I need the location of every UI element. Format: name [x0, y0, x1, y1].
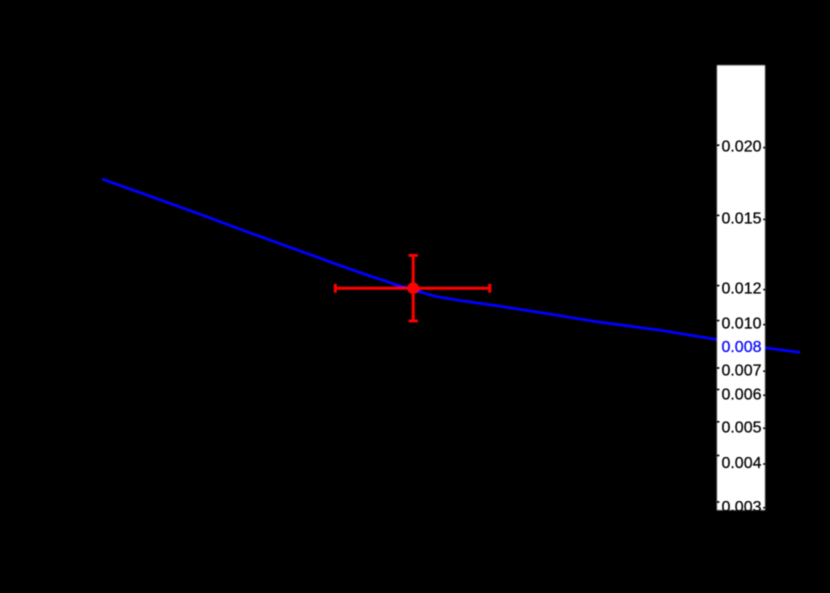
svg-text:0.015: 0.015 — [721, 211, 761, 228]
svg-text:0.012: 0.012 — [721, 281, 761, 298]
svg-text:0.003: 0.003 — [721, 499, 761, 516]
white axis label panel — [717, 65, 765, 510]
blue fit curve — [103, 179, 799, 352]
red data point vertical error bar — [409, 255, 418, 321]
svg-text:0.010: 0.010 — [721, 316, 761, 333]
axis tick marks on panel edges — [716, 145, 765, 508]
red data point marker — [407, 282, 419, 294]
svg-text:0.005: 0.005 — [721, 419, 761, 436]
svg-text:0.007: 0.007 — [721, 362, 761, 379]
svg-text:0.008: 0.008 — [721, 339, 761, 356]
svg-text:0.004: 0.004 — [721, 455, 761, 472]
axis tick labels — [721, 139, 761, 516]
svg-text:0.006: 0.006 — [721, 386, 761, 403]
red data point horizontal error bar — [335, 284, 489, 293]
svg-text:0.020: 0.020 — [721, 139, 761, 156]
